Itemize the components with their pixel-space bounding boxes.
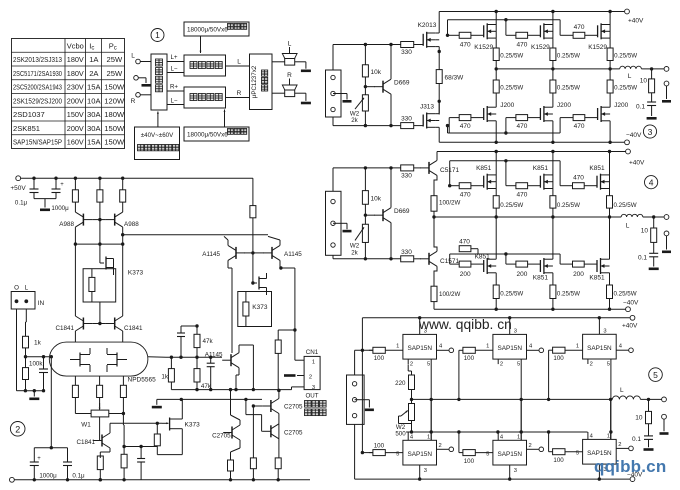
svg-text:100: 100 bbox=[553, 355, 564, 362]
resistor 47k lower bbox=[194, 357, 212, 390]
svg-text:K1529: K1529 bbox=[588, 44, 607, 51]
capacitor bias bbox=[122, 445, 157, 480]
svg-text:10: 10 bbox=[641, 228, 649, 235]
jfet K373 mid bbox=[252, 273, 268, 311]
svg-text:180V: 180V bbox=[67, 55, 85, 64]
resistor 200 gate K851 bottom bbox=[516, 261, 541, 278]
wire L in bbox=[140, 61, 151, 63]
sense terminal section4 bbox=[662, 231, 671, 253]
svg-text:5: 5 bbox=[576, 450, 579, 456]
input connector bbox=[326, 70, 342, 117]
resistor 470 gate K1529 bbox=[516, 32, 541, 48]
resistor 10 section3 bbox=[640, 69, 655, 93]
jfet K373 lower bbox=[162, 399, 200, 430]
svg-text:100: 100 bbox=[553, 457, 564, 464]
gate bus top section4 bbox=[448, 159, 573, 187]
wire section4 330 to C5171 base bbox=[414, 167, 421, 169]
svg-text:470: 470 bbox=[574, 24, 585, 31]
resistor 0.25/5W lower bbox=[493, 69, 523, 107]
wire current amp L to protection bbox=[226, 59, 250, 67]
svg-text:10k: 10k bbox=[371, 69, 382, 76]
svg-text:5: 5 bbox=[607, 362, 610, 368]
wire section3 330 to K2013 gate bbox=[414, 44, 424, 46]
ground stub lower bbox=[152, 399, 162, 408]
svg-text:K851: K851 bbox=[533, 165, 549, 172]
bottom rail -40V section5 bbox=[355, 472, 643, 482]
svg-text:R: R bbox=[287, 72, 292, 79]
resistor 100 top 2 bbox=[457, 347, 475, 401]
resistor 200 gate K851 bottom bbox=[459, 261, 484, 278]
svg-text:2k: 2k bbox=[351, 250, 358, 257]
mosfet K2013 bbox=[418, 12, 441, 70]
resistor 100 top 1 bbox=[369, 347, 385, 362]
mosfet K1529 bbox=[531, 12, 553, 52]
svg-text:470: 470 bbox=[460, 123, 471, 130]
left vertical feed bbox=[361, 350, 373, 454]
svg-text:L−: L− bbox=[170, 98, 177, 105]
resistor 330 top bbox=[401, 42, 414, 57]
mosfet K851 bottom bbox=[533, 217, 553, 282]
resistor 68/3W bbox=[436, 70, 464, 115]
voltage amp box (vertical) bbox=[151, 54, 167, 110]
svg-text:A988: A988 bbox=[59, 221, 74, 228]
mosfet K851 top bbox=[533, 152, 553, 190]
gate bus top section3 bbox=[446, 18, 573, 37]
svg-text:5: 5 bbox=[653, 370, 658, 380]
svg-text:3: 3 bbox=[424, 468, 427, 474]
svg-text:L: L bbox=[628, 73, 632, 80]
svg-text:200: 200 bbox=[573, 271, 584, 278]
wire NPD gate left bbox=[24, 355, 50, 358]
K373 box mid bbox=[238, 292, 272, 327]
svg-text:0.25/5W: 0.25/5W bbox=[614, 291, 637, 298]
svg-text:2: 2 bbox=[590, 362, 593, 368]
resistor 100/2W upper bbox=[431, 196, 460, 219]
svg-text:J200: J200 bbox=[557, 102, 571, 109]
svg-text:3: 3 bbox=[514, 328, 517, 334]
wire A988 base bus bbox=[92, 202, 106, 221]
svg-text:3: 3 bbox=[648, 127, 653, 137]
svg-text:470: 470 bbox=[460, 192, 471, 199]
svg-text:R: R bbox=[131, 98, 136, 105]
svg-text:L: L bbox=[237, 59, 241, 66]
svg-text:470: 470 bbox=[459, 239, 470, 246]
svg-text:0.25/5W: 0.25/5W bbox=[614, 85, 637, 92]
svg-text:1000μ: 1000μ bbox=[39, 473, 57, 480]
wire NPD gate right bbox=[148, 356, 222, 359]
resistor 100/2W lower bbox=[431, 286, 460, 309]
resistor VAS bbox=[250, 206, 256, 255]
svg-text:0.1: 0.1 bbox=[632, 436, 641, 443]
output inductor L section5 bbox=[612, 387, 661, 401]
wire L- lower bbox=[167, 98, 184, 105]
mosfet K1529 bbox=[474, 12, 496, 52]
svg-text:1: 1 bbox=[607, 433, 610, 439]
svg-text:+: + bbox=[37, 456, 41, 462]
svg-text:150W: 150W bbox=[104, 83, 125, 92]
terminal +50V bbox=[10, 176, 26, 192]
watermark qqibb.cn blue bbox=[594, 457, 666, 476]
potentiometer W2 2k bbox=[350, 215, 369, 260]
output terminal section4 bbox=[664, 215, 669, 220]
svg-text:0.25/5W: 0.25/5W bbox=[500, 202, 523, 209]
bottom rail -40V section3 bbox=[439, 132, 642, 145]
svg-text:30A: 30A bbox=[87, 110, 101, 119]
transistor C2705 first bbox=[212, 390, 240, 460]
svg-text:0.1: 0.1 bbox=[636, 104, 645, 111]
circled number 5 bbox=[649, 368, 663, 382]
capacitor 0.1u bottom bbox=[63, 448, 85, 480]
svg-text:230V: 230V bbox=[67, 83, 85, 92]
capacitor 0.1 section5 bbox=[632, 424, 654, 451]
svg-text:J200: J200 bbox=[614, 102, 628, 109]
svg-text:K1529: K1529 bbox=[531, 44, 550, 51]
svg-text:1: 1 bbox=[312, 360, 315, 366]
svg-text:0.25/5W: 0.25/5W bbox=[500, 291, 523, 298]
svg-text:120W: 120W bbox=[104, 96, 125, 105]
output inductor L section4 bbox=[621, 214, 664, 229]
svg-text:L: L bbox=[131, 53, 135, 60]
resistor 470 gate K1529 bbox=[573, 24, 598, 39]
svg-text:200V: 200V bbox=[67, 96, 85, 105]
wire R in bbox=[140, 94, 151, 96]
wire connector bottom to rail bbox=[354, 424, 356, 479]
svg-text:L: L bbox=[25, 285, 29, 292]
gate bus bottom section3 bbox=[446, 118, 573, 135]
svg-text:4: 4 bbox=[649, 178, 654, 188]
svg-text:J313: J313 bbox=[420, 104, 434, 111]
svg-text:1k: 1k bbox=[34, 340, 42, 347]
resistor 0.25/5W lower s4 bbox=[550, 273, 580, 309]
wire C1841 base bus bbox=[92, 302, 106, 325]
svg-text:D669: D669 bbox=[394, 80, 410, 87]
resistor emitter 1 bbox=[97, 456, 103, 481]
svg-text:2: 2 bbox=[439, 443, 442, 449]
device table bbox=[12, 39, 125, 149]
capacitor 0.1u rail bbox=[15, 178, 39, 206]
svg-text:C1841: C1841 bbox=[124, 325, 143, 332]
resistor 470 gate J200 bbox=[516, 115, 541, 131]
resistor 470 gate K851 top bbox=[459, 183, 484, 199]
svg-text:+40V: +40V bbox=[629, 160, 645, 167]
SAP15N module bottom 3 bbox=[565, 399, 633, 479]
wire connector bottom to bottom line bbox=[333, 255, 401, 258]
jfet K373 upper bbox=[100, 257, 144, 277]
svg-text:1: 1 bbox=[427, 434, 430, 440]
svg-text:2: 2 bbox=[15, 424, 20, 434]
svg-text:470: 470 bbox=[574, 123, 585, 130]
svg-text:2SK2013/2SJ313: 2SK2013/2SJ313 bbox=[13, 55, 62, 64]
svg-text:0.25/5W: 0.25/5W bbox=[557, 291, 580, 298]
mosfet K851 top bbox=[476, 152, 496, 190]
resistor 0.25/5W lower s4 bbox=[607, 273, 637, 309]
svg-text:1k: 1k bbox=[161, 374, 169, 381]
mosfet K1529 bbox=[588, 12, 610, 52]
svg-text:2k: 2k bbox=[351, 117, 358, 124]
svg-text:160V: 160V bbox=[67, 138, 85, 147]
svg-text:2SC5171/2SA1930: 2SC5171/2SA1930 bbox=[13, 69, 62, 78]
potentiometer W1 bbox=[75, 403, 123, 429]
svg-text:200: 200 bbox=[516, 271, 527, 278]
output inductor L section3 bbox=[620, 66, 664, 80]
wire input to 1k bbox=[25, 309, 28, 336]
resistor 10k bbox=[362, 166, 381, 215]
svg-text:200: 200 bbox=[460, 271, 471, 278]
svg-text:A1145: A1145 bbox=[205, 352, 223, 359]
svg-text:10: 10 bbox=[635, 415, 643, 422]
svg-text:2SC5200/2SA1943: 2SC5200/2SA1943 bbox=[13, 83, 62, 92]
svg-text:330: 330 bbox=[401, 116, 412, 123]
svg-text:K1529: K1529 bbox=[474, 44, 493, 51]
svg-text:−40V: −40V bbox=[626, 132, 642, 139]
svg-text:2SK851: 2SK851 bbox=[13, 124, 40, 133]
svg-text:15A: 15A bbox=[87, 83, 101, 92]
link top pin5 to bottom pin1 columns bbox=[431, 399, 610, 440]
watermark www.qqibb.cn bbox=[418, 317, 512, 332]
svg-text:220: 220 bbox=[395, 380, 406, 387]
svg-text:5: 5 bbox=[486, 451, 489, 457]
wire section3 330 to J313 gate bbox=[414, 125, 424, 127]
resistor 1k fb bbox=[161, 357, 174, 389]
svg-text:SAP15N/SAP15P: SAP15N/SAP15P bbox=[13, 138, 62, 147]
resistor 100 bottom 1 bbox=[369, 443, 385, 456]
circled number 4 bbox=[645, 176, 658, 189]
power board box 18000u/50Vx6 top bbox=[184, 22, 249, 36]
svg-text:470: 470 bbox=[460, 41, 471, 48]
svg-text:A1145: A1145 bbox=[284, 251, 302, 258]
svg-text:150W: 150W bbox=[104, 138, 125, 147]
transistor C5171 bbox=[420, 152, 459, 196]
svg-text:A1145: A1145 bbox=[202, 251, 220, 258]
top rail +40V section4 bbox=[437, 149, 645, 166]
svg-text:18000μ/50Vx6: 18000μ/50Vx6 bbox=[187, 132, 228, 139]
transistor D669 bbox=[364, 166, 410, 260]
svg-text:R+: R+ bbox=[170, 84, 178, 91]
wire gnd bus lower bbox=[157, 398, 262, 401]
resistor tail right bbox=[120, 376, 126, 413]
svg-text:R: R bbox=[237, 90, 242, 97]
resistor out 2 bbox=[250, 406, 256, 480]
svg-text:NPD5565: NPD5565 bbox=[128, 377, 157, 384]
input ground bbox=[24, 389, 46, 400]
ground at connector bbox=[333, 223, 352, 232]
speaker R ground bbox=[295, 93, 311, 104]
resistor collector left bbox=[72, 178, 78, 202]
wire connector top to top line bbox=[333, 45, 401, 71]
resistor 100 bottom 3 bbox=[547, 430, 565, 464]
svg-text:0.25/5W: 0.25/5W bbox=[500, 53, 523, 60]
wire L- bbox=[167, 66, 184, 73]
input terminal L bbox=[131, 53, 140, 64]
svg-text:2: 2 bbox=[500, 362, 503, 368]
resistor 470 C1571 path bbox=[459, 239, 478, 255]
svg-text:IN: IN bbox=[38, 300, 45, 307]
resistor 0.25/5W lower bbox=[607, 69, 637, 107]
svg-text:2: 2 bbox=[529, 443, 532, 449]
mosfet K851 bottom bbox=[589, 217, 609, 282]
svg-text:C2705: C2705 bbox=[284, 404, 303, 411]
wire connector to top row bbox=[355, 349, 373, 375]
svg-text:SAP15N: SAP15N bbox=[497, 451, 522, 458]
svg-text:150W: 150W bbox=[104, 124, 125, 133]
svg-text:15A: 15A bbox=[87, 138, 101, 147]
lower link bus section5 bbox=[406, 430, 587, 433]
svg-text:100/2W: 100/2W bbox=[439, 200, 460, 207]
svg-text:K2013: K2013 bbox=[418, 22, 437, 29]
mosfet J313 bbox=[420, 101, 439, 142]
bottom rail -40V section4 bbox=[434, 300, 639, 312]
svg-text:K373: K373 bbox=[185, 422, 201, 429]
speaker R bbox=[272, 72, 297, 97]
svg-text:1: 1 bbox=[517, 434, 520, 440]
arrow power to current amp R bbox=[224, 110, 226, 128]
svg-text:10A: 10A bbox=[87, 96, 101, 105]
svg-text:470: 470 bbox=[573, 174, 584, 181]
svg-text:470: 470 bbox=[516, 41, 527, 48]
svg-text:2: 2 bbox=[309, 375, 312, 381]
svg-text:C1841: C1841 bbox=[55, 325, 74, 332]
capacitor input gnd bbox=[39, 355, 48, 391]
svg-text:1000μ: 1000μ bbox=[51, 205, 69, 212]
ground at connector section5 bbox=[355, 400, 374, 411]
output terminal section5 bbox=[662, 397, 667, 402]
resistor 47k upper bbox=[181, 324, 214, 357]
connector CN1 bbox=[292, 349, 321, 400]
arrow power to current amp L bbox=[200, 36, 202, 53]
resistor 0.25/5W upper s4 bbox=[550, 189, 580, 218]
svg-text:2: 2 bbox=[410, 362, 413, 368]
svg-text:L: L bbox=[288, 41, 292, 48]
svg-text:CN1: CN1 bbox=[306, 349, 319, 356]
svg-text:J200: J200 bbox=[500, 102, 514, 109]
wire K373 to vas bbox=[251, 253, 254, 285]
mosfet J200 bbox=[484, 102, 515, 142]
resistor 470 gate J200 bbox=[459, 115, 484, 131]
resistor 470 gate K851 top bbox=[516, 183, 541, 199]
node K373 drive bbox=[98, 220, 101, 263]
resistor 220 bbox=[395, 364, 414, 401]
SAP15N module bottom 2 bbox=[475, 399, 543, 479]
input terminal mid with ground bbox=[134, 76, 151, 87]
svg-text:W2: W2 bbox=[350, 242, 360, 249]
resistor 0.25/5W upper bbox=[607, 38, 637, 69]
SAP15N module top 3 bbox=[565, 318, 633, 400]
svg-text:0.25/5W: 0.25/5W bbox=[557, 202, 580, 209]
K373 lower bias loop bbox=[110, 422, 182, 455]
capacitor comp 2 bbox=[207, 356, 215, 392]
dual jfet NPD5565 bbox=[49, 342, 156, 383]
transistor D669 bbox=[364, 43, 410, 128]
svg-text:30A: 30A bbox=[87, 124, 101, 133]
svg-text:±40V~±60V: ±40V~±60V bbox=[141, 132, 174, 139]
svg-text:K373: K373 bbox=[252, 304, 268, 311]
sense terminal section3 bbox=[662, 81, 671, 103]
svg-text:68/3W: 68/3W bbox=[445, 75, 465, 82]
resistor 0.25/5W lower s4 bbox=[493, 273, 523, 309]
wire W1 right to bias resistor bbox=[122, 412, 125, 425]
capacitor 1000u bottom bbox=[30, 448, 57, 480]
resistor tail mid bbox=[97, 376, 103, 407]
svg-text:2A: 2A bbox=[89, 69, 99, 78]
label to power amp board bbox=[305, 401, 327, 416]
svg-text:200V: 200V bbox=[67, 124, 85, 133]
svg-text:180W: 180W bbox=[104, 110, 125, 119]
mosfet J200 bbox=[598, 102, 629, 142]
input connector bbox=[326, 191, 342, 255]
SAP15N module bottom 1 bbox=[385, 399, 453, 479]
output bus section3 bbox=[495, 67, 620, 70]
svg-text:D669: D669 bbox=[394, 208, 410, 215]
resistor 10 section4 bbox=[641, 217, 657, 242]
resistor 0.25/5W upper s4 bbox=[607, 189, 637, 218]
svg-text:2SD1037: 2SD1037 bbox=[13, 110, 45, 119]
svg-text:330: 330 bbox=[401, 249, 412, 256]
svg-text:3: 3 bbox=[603, 328, 606, 334]
svg-text:0.25/5W: 0.25/5W bbox=[557, 53, 580, 60]
transistor A1145 left bbox=[202, 236, 253, 353]
svg-text:K851: K851 bbox=[475, 254, 491, 261]
svg-text:K851: K851 bbox=[476, 165, 492, 172]
svg-text:SAP15N: SAP15N bbox=[587, 450, 612, 457]
wire connector top to top line bbox=[333, 168, 401, 191]
svg-text:180V: 180V bbox=[67, 69, 85, 78]
svg-text:www. qqibb. cn: www. qqibb. cn bbox=[418, 317, 512, 332]
transistor C1841 vbe bbox=[76, 417, 110, 458]
svg-text:100: 100 bbox=[374, 355, 385, 362]
resistor collector mid bbox=[97, 178, 103, 202]
resistor 330 bottom bbox=[401, 249, 414, 262]
class A PSU box +-40V~+-60V bbox=[135, 127, 180, 160]
resistor out 1 bbox=[228, 460, 234, 480]
resistor 330 bottom bbox=[401, 116, 414, 129]
svg-text:1: 1 bbox=[486, 343, 489, 349]
wire right branch to A1145 bases bbox=[121, 233, 268, 236]
capacitor 0.1 section3 bbox=[636, 93, 657, 120]
wire current amp R to protection bbox=[226, 90, 250, 98]
output bus section4 bbox=[434, 215, 655, 218]
resistor 330 top bbox=[401, 165, 414, 180]
transistor C2705 second bbox=[252, 389, 303, 424]
svg-text:C2705: C2705 bbox=[284, 430, 303, 437]
svg-text:330: 330 bbox=[401, 49, 412, 56]
resistor 0.25/5W lower bbox=[550, 69, 580, 107]
svg-text:1: 1 bbox=[396, 343, 399, 349]
svg-text:Vcbo: Vcbo bbox=[67, 41, 84, 50]
svg-text:0.25/5W: 0.25/5W bbox=[500, 85, 523, 92]
top rail section2 bbox=[21, 177, 253, 180]
wire connector bottom to bottom line bbox=[333, 117, 401, 126]
svg-text:μPC1237x2: μPC1237x2 bbox=[251, 65, 258, 98]
svg-text:C1841: C1841 bbox=[76, 439, 95, 446]
arrow classA PSU to voltage amp bbox=[157, 112, 159, 128]
svg-text:OUT: OUT bbox=[305, 393, 318, 400]
SAP15N module top 2 bbox=[475, 318, 543, 400]
svg-text:SAP15N: SAP15N bbox=[407, 451, 432, 458]
svg-text:+: + bbox=[60, 182, 64, 188]
svg-text:2: 2 bbox=[618, 442, 621, 448]
capacitor comp bbox=[177, 326, 185, 357]
input connector section2 bbox=[11, 285, 44, 310]
capacitor 1000u rail bbox=[51, 178, 69, 212]
transistor A988 right bbox=[106, 202, 139, 244]
sense terminal section5 bbox=[660, 414, 669, 435]
svg-text:47k: 47k bbox=[203, 338, 214, 345]
resistor collector C2705 bbox=[275, 328, 296, 390]
transistor A1145 right bbox=[253, 236, 302, 360]
resistor 0.25/5W upper s4 bbox=[493, 189, 523, 218]
potentiometer W2 2k bbox=[350, 87, 369, 128]
svg-text:3: 3 bbox=[514, 468, 517, 474]
